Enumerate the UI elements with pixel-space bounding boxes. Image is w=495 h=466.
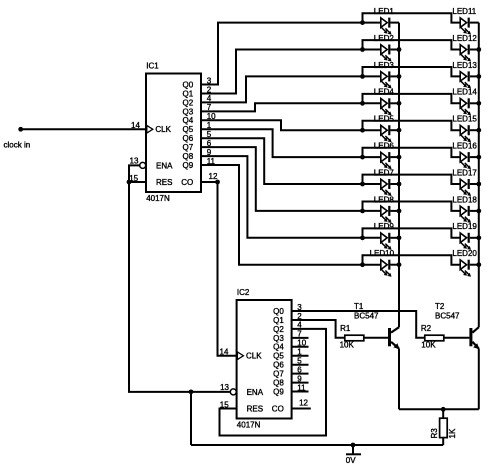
transistor T2 BC547 symbol (469, 327, 479, 349)
wire branch Q3 to LED14 (363, 94, 461, 103)
svg-text:clock in: clock in (4, 141, 31, 150)
wire T1 emitter down (398, 349, 400, 410)
svg-text:LED15: LED15 (452, 115, 477, 124)
IC IC2 RES label pin 15 (220, 400, 263, 413)
LED LED2 diode symbol (363, 45, 400, 55)
svg-text:RES: RES (156, 178, 172, 187)
IC2 CO pin 12 stub (292, 408, 311, 410)
svg-text:Q1: Q1 (273, 316, 284, 325)
LED LED7 diode symbol (363, 179, 400, 189)
wire T2 emitter down (478, 349, 480, 410)
wire 0V rail (191, 444, 443, 446)
LED LED5 diode symbol (363, 125, 400, 135)
junction dot on LED1 feed (360, 20, 365, 25)
junction dot IC1 pin 12 (215, 180, 220, 185)
svg-text:CO: CO (272, 404, 284, 413)
junction dot on LED2 feed (360, 47, 365, 52)
LED LED18 emission arrows (461, 216, 471, 223)
wire branch Q9 to LED20 (363, 255, 461, 264)
svg-text:LED9: LED9 (374, 222, 395, 231)
svg-text:ENA: ENA (247, 388, 264, 397)
LED LED13 diode symbol (460, 71, 479, 81)
junction dot clock in terminal (18, 127, 23, 132)
junction dot IC1 RES (127, 180, 132, 185)
svg-text:Q5: Q5 (273, 352, 284, 361)
IC IC2 CLK label and input triangle (237, 352, 262, 361)
IC IC2 output pin numbers (297, 303, 306, 393)
junction dot on LED7 feed (360, 182, 365, 187)
svg-text:R3: R3 (430, 428, 439, 439)
svg-text:IC1: IC1 (146, 62, 159, 71)
svg-text:LED8: LED8 (374, 195, 395, 204)
IC IC1 output labels Q0-Q9 (183, 80, 194, 170)
svg-text:BC547: BC547 (435, 311, 460, 320)
svg-text:Q4: Q4 (183, 116, 194, 125)
svg-text:0V: 0V (346, 456, 356, 465)
svg-text:IC2: IC2 (237, 288, 250, 297)
junction dot LED6 cathode on left bus (397, 155, 402, 160)
svg-text:LED18: LED18 (452, 195, 477, 204)
wire IC1 Q9 pin to LED10 row (201, 165, 363, 265)
LED LED11 emission arrows (461, 27, 471, 34)
wire ENA net down to 0V rail (190, 392, 192, 445)
wire emitter bus to R3 (442, 409, 444, 418)
LED LED20 emission arrows (461, 270, 471, 277)
svg-text:14: 14 (131, 121, 140, 130)
junction dot LED17 cathode on right bus (476, 182, 481, 187)
svg-text:Q2: Q2 (183, 98, 194, 107)
junction dot on LED9 feed (360, 235, 365, 240)
wire IC1 Q1 pin to LED2 row (201, 50, 363, 94)
LED LED15 emission arrows (461, 135, 471, 142)
svg-text:12: 12 (299, 399, 308, 408)
svg-text:CO: CO (181, 178, 193, 187)
IC IC1 RES label pin 15 (129, 174, 172, 187)
wire IC1 Q4 pin to LED5 row (201, 120, 363, 130)
wire clock in to IC1 CLK pin 14 (21, 128, 146, 130)
LED LED8 emission arrows (381, 216, 391, 223)
junction dot LED2 cathode on left bus (397, 47, 402, 52)
junction dot LED18 cathode on right bus (476, 209, 481, 214)
wire IC1 CO pin 12 to IC2 CLK pin 14 (201, 182, 237, 356)
transistor T1 BC547 symbol (388, 327, 400, 349)
LED LED12 emission arrows (461, 54, 471, 61)
svg-text:Q8: Q8 (183, 152, 194, 161)
svg-text:LED11: LED11 (452, 7, 476, 16)
svg-text:RES: RES (247, 404, 263, 413)
junction dot LED8 cathode on left bus (397, 209, 402, 214)
svg-text:LED10: LED10 (370, 249, 395, 258)
LED LED1 diode symbol (363, 18, 400, 28)
junction dot LED4 cathode on left bus (397, 101, 402, 106)
svg-text:LED1: LED1 (374, 7, 395, 16)
svg-text:4017N: 4017N (146, 194, 170, 203)
wire IC1 ENA pin13 / RES pin15 down to IC2 ENA pin13 (129, 165, 230, 392)
wire branch Q6 to LED17 (363, 175, 461, 184)
wire right LED cathode bus to T2 collector (478, 23, 480, 328)
wire emitter bus (399, 408, 479, 410)
LED LED20 diode symbol (460, 260, 479, 270)
LED LED10 emission arrows (381, 270, 391, 277)
svg-text:13: 13 (220, 383, 229, 392)
svg-text:LED5: LED5 (374, 115, 395, 124)
wire branch Q8 to LED19 (363, 228, 461, 237)
IC IC1 ENA label and bubble pin 13 (130, 157, 174, 171)
LED LED7 emission arrows (381, 189, 391, 196)
svg-text:Q7: Q7 (273, 370, 284, 379)
svg-text:Q2: Q2 (273, 325, 284, 334)
wire R2 to T2 base (444, 337, 470, 339)
IC IC1 CO label pin 12 (181, 172, 218, 187)
wire IC2 Q2 pin 4 loop to IC2 RES pin 15 (220, 329, 327, 436)
LED LED8 diode symbol (363, 206, 400, 216)
wire IC2 Q1 pin 2 to R1 (292, 320, 345, 338)
IC IC1 4017N body (146, 74, 201, 193)
junction dot LED14 cathode on right bus (476, 101, 481, 106)
junction dot LED20 cathode on right bus (476, 262, 481, 267)
svg-text:Q9: Q9 (183, 161, 194, 170)
wire branch Q0 to LED11 (363, 13, 461, 22)
LED LED2 emission arrows (381, 54, 391, 61)
IC2 unconnected output stubs Q3-Q9 (292, 338, 309, 392)
svg-text:LED13: LED13 (452, 61, 477, 70)
svg-text:LED16: LED16 (452, 142, 477, 151)
svg-text:LED20: LED20 (452, 249, 477, 258)
junction dot on LED5 feed (360, 128, 365, 133)
wire IC1 Q5 pin to LED6 row (201, 129, 363, 157)
junction dot LED7 cathode on left bus (397, 182, 402, 187)
LED LED11 diode symbol (460, 18, 479, 28)
svg-text:Q3: Q3 (273, 334, 284, 343)
svg-text:Q4: Q4 (273, 343, 284, 352)
wire IC2 Q0 pin 3 to R2 (292, 311, 425, 338)
junction dot on LED8 feed (360, 209, 365, 214)
svg-text:R1: R1 (340, 324, 351, 333)
wire branch Q2 to LED13 (363, 67, 461, 76)
junction dot LED13 cathode on right bus (476, 74, 481, 79)
wire left LED cathode bus to T1 collector (398, 23, 400, 328)
LED LED18 diode symbol (460, 206, 479, 216)
svg-text:LED7: LED7 (374, 168, 395, 177)
svg-text:Q1: Q1 (183, 89, 194, 98)
LED LED6 emission arrows (381, 162, 391, 169)
IC IC2 ENA label and bubble pin 13 (220, 383, 264, 397)
IC IC2 CO label pin 12 (272, 399, 309, 414)
svg-text:LED19: LED19 (452, 222, 477, 231)
svg-text:LED17: LED17 (452, 168, 477, 177)
IC IC1 output pin numbers (207, 76, 216, 166)
wire IC1 Q6 pin to LED7 row (201, 138, 363, 184)
resistor R3 body (440, 418, 448, 437)
LED LED4 diode symbol (363, 98, 400, 108)
svg-text:Q0: Q0 (273, 307, 284, 316)
svg-text:LED14: LED14 (452, 88, 477, 97)
wire IC1 RES pin15 stub (129, 181, 146, 183)
svg-text:LED4: LED4 (374, 88, 395, 97)
junction dot LED12 cathode on right bus (476, 47, 481, 52)
svg-text:ENA: ENA (156, 161, 173, 170)
LED LED13 emission arrows (461, 81, 471, 88)
wire branch Q5 to LED16 (363, 148, 461, 157)
svg-text:Q3: Q3 (183, 107, 194, 116)
LED LED14 emission arrows (461, 108, 471, 115)
junction dot LED16 cathode on right bus (476, 155, 481, 160)
wire branch Q7 to LED18 (363, 202, 461, 211)
junction dot ground rail (351, 443, 356, 448)
svg-text:Q5: Q5 (183, 125, 194, 134)
svg-text:LED12: LED12 (452, 34, 477, 43)
resistor R2 body (425, 335, 444, 341)
junction dot on LED4 feed (360, 101, 365, 106)
svg-text:T2: T2 (435, 302, 445, 311)
svg-text:10K: 10K (421, 341, 436, 350)
junction dot LED15 cathode on right bus (476, 128, 481, 133)
svg-text:LED6: LED6 (374, 142, 395, 151)
IC IC2 4017N body (237, 300, 292, 419)
LED LED4 emission arrows (381, 108, 391, 115)
IC IC1 CLK label and input triangle (147, 125, 172, 134)
junction dot LED5 cathode on left bus (397, 128, 402, 133)
svg-text:10K: 10K (340, 341, 355, 350)
svg-text:1K: 1K (448, 428, 457, 438)
LED LED12 diode symbol (460, 45, 479, 55)
LED LED17 diode symbol (460, 179, 479, 189)
svg-text:Q9: Q9 (273, 387, 284, 396)
svg-text:R2: R2 (421, 324, 432, 333)
svg-text:13: 13 (130, 157, 139, 166)
LED LED5 emission arrows (381, 135, 391, 142)
svg-text:LED3: LED3 (374, 61, 395, 70)
wire branch Q1 to LED12 (363, 40, 461, 49)
LED LED16 emission arrows (461, 162, 471, 169)
LED LED6 diode symbol (363, 152, 400, 162)
wire branch Q4 to LED15 (363, 121, 461, 130)
svg-text:Q8: Q8 (273, 379, 284, 388)
LED LED17 emission arrows (461, 189, 471, 196)
junction dot LED10 cathode on left bus (397, 262, 402, 267)
resistor R1 body (345, 335, 364, 341)
svg-text:LED2: LED2 (374, 34, 395, 43)
junction dot LED9 cathode on left bus (397, 235, 402, 240)
LED LED10 diode symbol (363, 260, 400, 270)
junction dot emitter bus to R3 (441, 407, 446, 412)
LED LED9 diode symbol (363, 233, 400, 243)
svg-text:BC547: BC547 (354, 311, 379, 320)
ground 0V symbol (346, 445, 361, 454)
LED LED9 emission arrows (381, 243, 391, 250)
svg-text:T1: T1 (354, 302, 364, 311)
LED LED16 diode symbol (460, 152, 479, 162)
LED LED1 emission arrows (381, 27, 391, 34)
wire IC1 Q7 pin to LED8 row (201, 147, 363, 211)
wire R3 to 0V rail (442, 438, 444, 445)
svg-text:4017N: 4017N (237, 421, 261, 430)
IC IC2 output labels Q0-Q9 (273, 307, 284, 397)
svg-text:Q6: Q6 (273, 361, 284, 370)
svg-text:CLK: CLK (246, 352, 262, 361)
LED LED14 diode symbol (460, 98, 479, 108)
wire IC1 Q2 pin to LED3 row (201, 76, 363, 102)
wire IC1 Q8 pin to LED9 row (201, 156, 363, 238)
svg-text:Q7: Q7 (183, 143, 194, 152)
LED LED3 diode symbol (363, 71, 400, 81)
junction dot ENA net to ground branch (189, 389, 194, 394)
LED LED15 diode symbol (460, 125, 479, 135)
junction dot on LED6 feed (360, 155, 365, 160)
wire IC1 Q3 pin to LED4 row (201, 103, 363, 111)
junction dot on LED3 feed (360, 74, 365, 79)
junction dot on LED10 feed (360, 262, 365, 267)
svg-text:Q6: Q6 (183, 134, 194, 143)
junction dot LED19 cathode on right bus (476, 235, 481, 240)
svg-text:Q0: Q0 (183, 80, 194, 89)
wire IC1 Q0 pin to LED1 row (201, 23, 363, 85)
LED LED3 emission arrows (381, 81, 391, 88)
junction dot LED3 cathode on left bus (397, 74, 402, 79)
LED LED19 diode symbol (460, 233, 479, 243)
svg-text:CLK: CLK (155, 125, 171, 134)
LED LED19 emission arrows (461, 243, 471, 250)
wire R1 to T1 base (364, 337, 388, 339)
